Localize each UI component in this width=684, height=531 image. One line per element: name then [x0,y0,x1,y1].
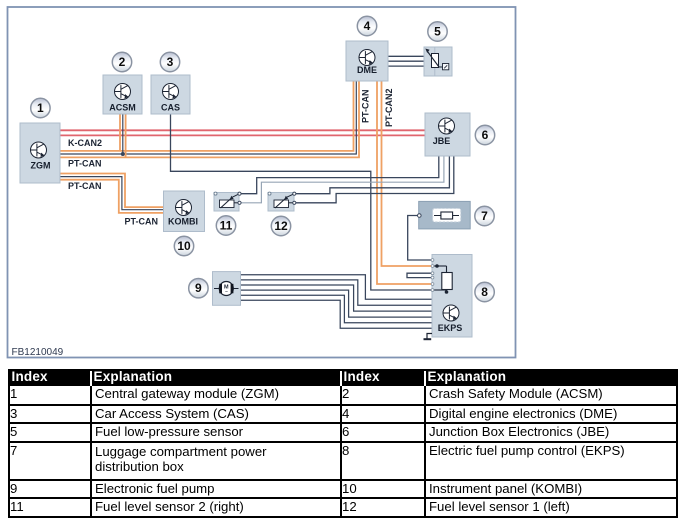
ACSM control unit box [103,75,142,114]
svg-text:ZGM: ZGM [31,161,51,171]
index circle 8 [475,282,494,301]
svg-text:K-CAN2: K-CAN2 [68,138,102,148]
JBE control unit box [425,113,470,156]
svg-text:10: 10 [177,239,191,253]
wire fuel level sensor 2 top pin to JBE [240,156,439,194]
svg-text:11: 11 [220,219,233,233]
wire PT-CAN branch (ZGM to KOMBI) [59,174,164,213]
index circle 7 [475,206,494,225]
wire luggage compartment box to EKPS [408,216,433,261]
CAS control unit box [151,75,190,114]
svg-text:7: 7 [481,209,488,223]
electronic fuel pump box [213,272,241,306]
wire ACSM drop to PT-CAN [120,114,126,157]
svg-text:CAS: CAS [161,103,180,113]
svg-text:8: 8 [481,285,488,299]
ZGM control unit box [20,123,60,183]
index circle 2 [112,52,131,71]
svg-text:3: 3 [167,55,174,69]
frame border of schematic [8,7,516,358]
junction dot ACSM/PT-CAN [121,152,125,156]
KOMBI control unit box [164,191,205,232]
svg-text:PT-CAN: PT-CAN [68,159,102,169]
svg-text:4: 4 [364,19,371,33]
svg-text:JBE: JBE [433,136,451,146]
wire PT-CAN2 (DME to EKPS, orange pair) [377,81,433,284]
wires DME to fuel low-pressure sensor [388,56,432,66]
svg-text:DME: DME [357,65,377,75]
ground symbol below EKPS [424,334,433,340]
fuel low-pressure sensor box [424,47,452,76]
index circle 9 [189,279,208,298]
index circle 5 [428,22,447,41]
index circle 1 [31,98,50,117]
EKPS control unit box [431,255,472,338]
DME control unit box [346,41,388,81]
svg-text:ACSM: ACSM [109,103,136,113]
index circle 6 [475,125,494,144]
index circle 11 [216,216,235,235]
wire CAS to EKPS [171,114,433,290]
fuel level sensor 2 box [214,192,241,211]
index circle 3 [160,52,179,71]
svg-text:EKPS: EKPS [438,323,463,333]
index circle 4 [357,16,376,35]
svg-text:PT-CAN: PT-CAN [361,90,371,124]
svg-text:12: 12 [274,219,288,233]
svg-text:2: 2 [119,55,126,69]
svg-text:1: 1 [37,101,44,115]
wires electronic fuel pump to EKPS [241,275,433,328]
svg-text:FB1210049: FB1210049 [12,347,64,358]
luggage compartment power distribution box [418,201,471,229]
wire fuel level sensor 2 mid pin to JBE (light) [240,156,444,203]
fuel level sensor 1 box [268,192,296,211]
wire jumper at EKPS pins [407,273,433,277]
wire fuel level sensor 1 mid pin to JBE [294,156,454,203]
svg-text:KOMBI: KOMBI [168,217,198,227]
index circle 10 [174,236,193,255]
svg-text:9: 9 [195,281,202,295]
wire PT-CAN (ZGM to DME, orange/dark/orange) [59,81,359,157]
svg-text:PT-CAN2: PT-CAN2 [384,88,394,127]
index circle 12 [271,216,290,235]
svg-text:~: ~ [225,290,228,296]
svg-text:6: 6 [482,128,489,142]
wire K-CAN2 (red pair ZGM to JBE) [59,130,425,135]
wire fuel level sensor 1 top pin to JBE [294,156,449,194]
svg-text:5: 5 [434,25,441,39]
legend table [8,369,678,518]
svg-text:PT-CAN: PT-CAN [68,181,102,191]
svg-text:PT-CAN: PT-CAN [125,217,159,227]
